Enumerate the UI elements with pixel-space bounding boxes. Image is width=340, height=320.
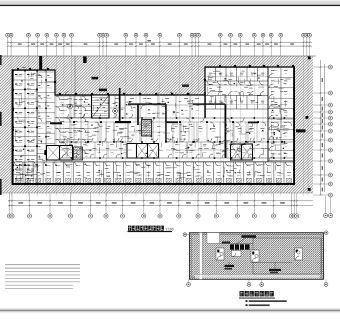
svg-text:1:100: 1:100: [165, 227, 173, 231]
